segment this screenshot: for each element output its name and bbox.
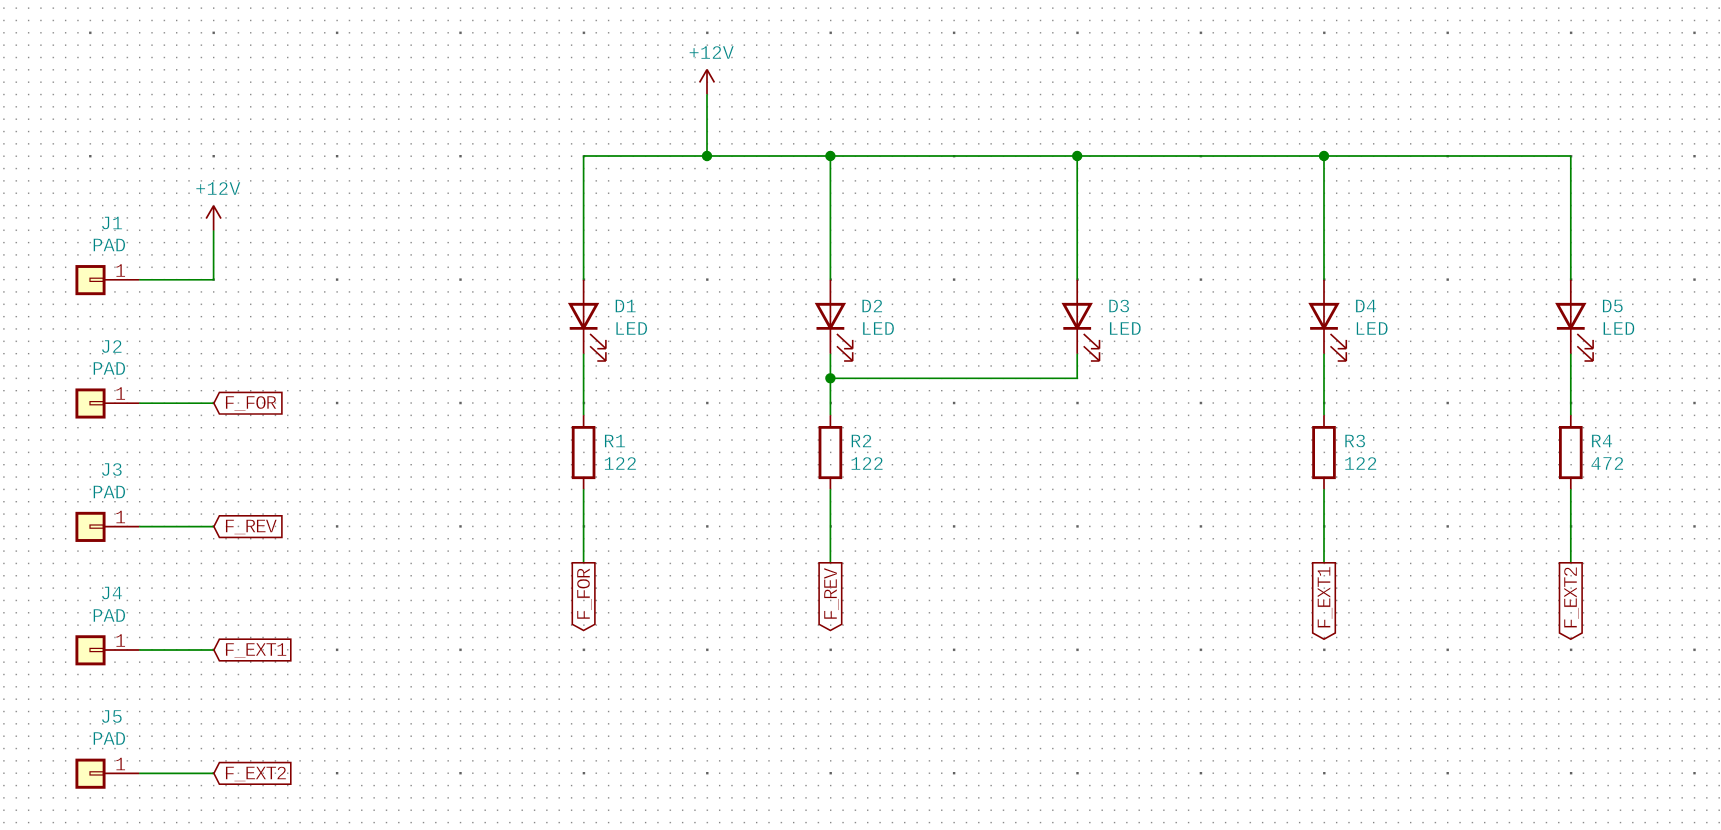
svg-text:F_REV: F_REV [821, 567, 843, 621]
connector J1 [77, 267, 139, 294]
global label F_EXT2 (vertical) [1560, 563, 1584, 639]
junction [1072, 151, 1082, 161]
wire R1 to label F_FOR [583, 489, 585, 563]
svg-text:F_EXT2: F_EXT2 [1561, 566, 1583, 629]
svg-text:R1: R1 [603, 432, 626, 454]
svg-text:F_EXT1: F_EXT1 [1314, 566, 1336, 629]
svg-text:1: 1 [115, 384, 126, 406]
global label F_EXT1 (vertical) [1313, 563, 1337, 639]
connector J2 [77, 390, 139, 417]
junction [825, 151, 835, 161]
svg-text:PAD: PAD [92, 359, 126, 381]
resistor R1 [573, 415, 594, 489]
LED D4 [1310, 280, 1346, 361]
resistor R4 [1560, 415, 1581, 489]
svg-text:LED: LED [1354, 319, 1388, 341]
svg-text:D3: D3 [1108, 297, 1131, 319]
LED D5 [1557, 280, 1593, 361]
global label F_EXT2 [214, 763, 291, 786]
svg-text:D5: D5 [1601, 297, 1624, 319]
svg-text:1: 1 [115, 508, 126, 530]
junction [702, 151, 712, 161]
wire J2 pin to label [139, 402, 214, 404]
svg-text:1: 1 [115, 261, 126, 283]
wire +12V bus [584, 155, 1571, 157]
svg-text:+12V: +12V [688, 43, 734, 65]
junction [1319, 151, 1329, 161]
svg-text:F_EXT1: F_EXT1 [224, 640, 287, 662]
svg-text:R4: R4 [1590, 432, 1613, 454]
power symbol +12V (top) [700, 70, 715, 95]
wire bus to D4 anode [1323, 156, 1325, 280]
svg-text:122: 122 [603, 454, 637, 476]
wire J1 pin to +12V [139, 230, 213, 279]
connector J5 [77, 760, 139, 787]
svg-text:PAD: PAD [92, 236, 126, 258]
svg-text:D4: D4 [1354, 297, 1377, 319]
connector J4 [77, 637, 139, 664]
global label F_EXT1 [214, 639, 291, 662]
wire R4 to label F_EXT2 [1570, 489, 1572, 563]
svg-text:R3: R3 [1344, 432, 1367, 454]
svg-text:F_FOR: F_FOR [574, 568, 596, 621]
LED D3 [1063, 280, 1099, 361]
global label F_FOR (vertical) [572, 563, 596, 631]
svg-text:J1: J1 [100, 213, 123, 235]
wire bus to D3 anode [1076, 156, 1078, 280]
svg-text:D2: D2 [861, 297, 884, 319]
svg-text:F_EXT2: F_EXT2 [224, 763, 287, 785]
svg-text:+12V: +12V [195, 179, 241, 201]
junction below D2 [825, 373, 835, 383]
global label F_REV [214, 516, 282, 539]
svg-text:LED: LED [861, 319, 895, 341]
wire bus to D1 anode [583, 156, 585, 280]
wire R3 to label F_EXT1 [1323, 489, 1325, 563]
wire R2 to label F_REV [829, 489, 831, 563]
svg-text:J2: J2 [100, 337, 123, 359]
wire J3 pin to label [139, 526, 214, 528]
wire LED cathode to R4 [1570, 354, 1572, 415]
svg-text:LED: LED [614, 319, 648, 341]
global label F_REV (vertical) [819, 563, 843, 631]
LED D1 [570, 280, 606, 361]
svg-text:1: 1 [115, 754, 126, 776]
wire bus to D5 anode [1570, 156, 1572, 280]
svg-text:PAD: PAD [92, 729, 126, 751]
wire LED cathode to R2 [829, 354, 831, 415]
svg-text:122: 122 [850, 454, 884, 476]
svg-text:D1: D1 [614, 297, 637, 319]
power symbol +12V (left) [206, 206, 221, 231]
wire LED cathode to R3 [1323, 354, 1325, 415]
LED D2 [817, 280, 853, 361]
svg-text:F_FOR: F_FOR [224, 393, 277, 415]
svg-text:472: 472 [1590, 454, 1624, 476]
svg-text:R2: R2 [850, 432, 873, 454]
global label F_FOR [214, 392, 282, 415]
svg-text:LED: LED [1601, 319, 1635, 341]
resistor R3 [1314, 415, 1335, 489]
resistor R2 [820, 415, 841, 489]
svg-text:J4: J4 [100, 584, 123, 606]
wire J4 pin to label [139, 649, 214, 651]
svg-text:PAD: PAD [92, 606, 126, 628]
wire LED cathode to R1 [583, 354, 585, 415]
wire D3 cathode down [830, 354, 1077, 379]
wire bus to D2 anode [829, 156, 831, 280]
svg-text:J3: J3 [100, 460, 123, 482]
svg-text:LED: LED [1108, 319, 1142, 341]
svg-text:F_REV: F_REV [224, 517, 278, 539]
svg-text:PAD: PAD [92, 482, 126, 504]
connector J3 [77, 513, 139, 540]
svg-text:1: 1 [115, 631, 126, 653]
wire +12V to bus [706, 94, 708, 156]
svg-text:J5: J5 [100, 707, 123, 729]
svg-text:122: 122 [1344, 454, 1378, 476]
wire J5 pin to label [139, 772, 214, 774]
